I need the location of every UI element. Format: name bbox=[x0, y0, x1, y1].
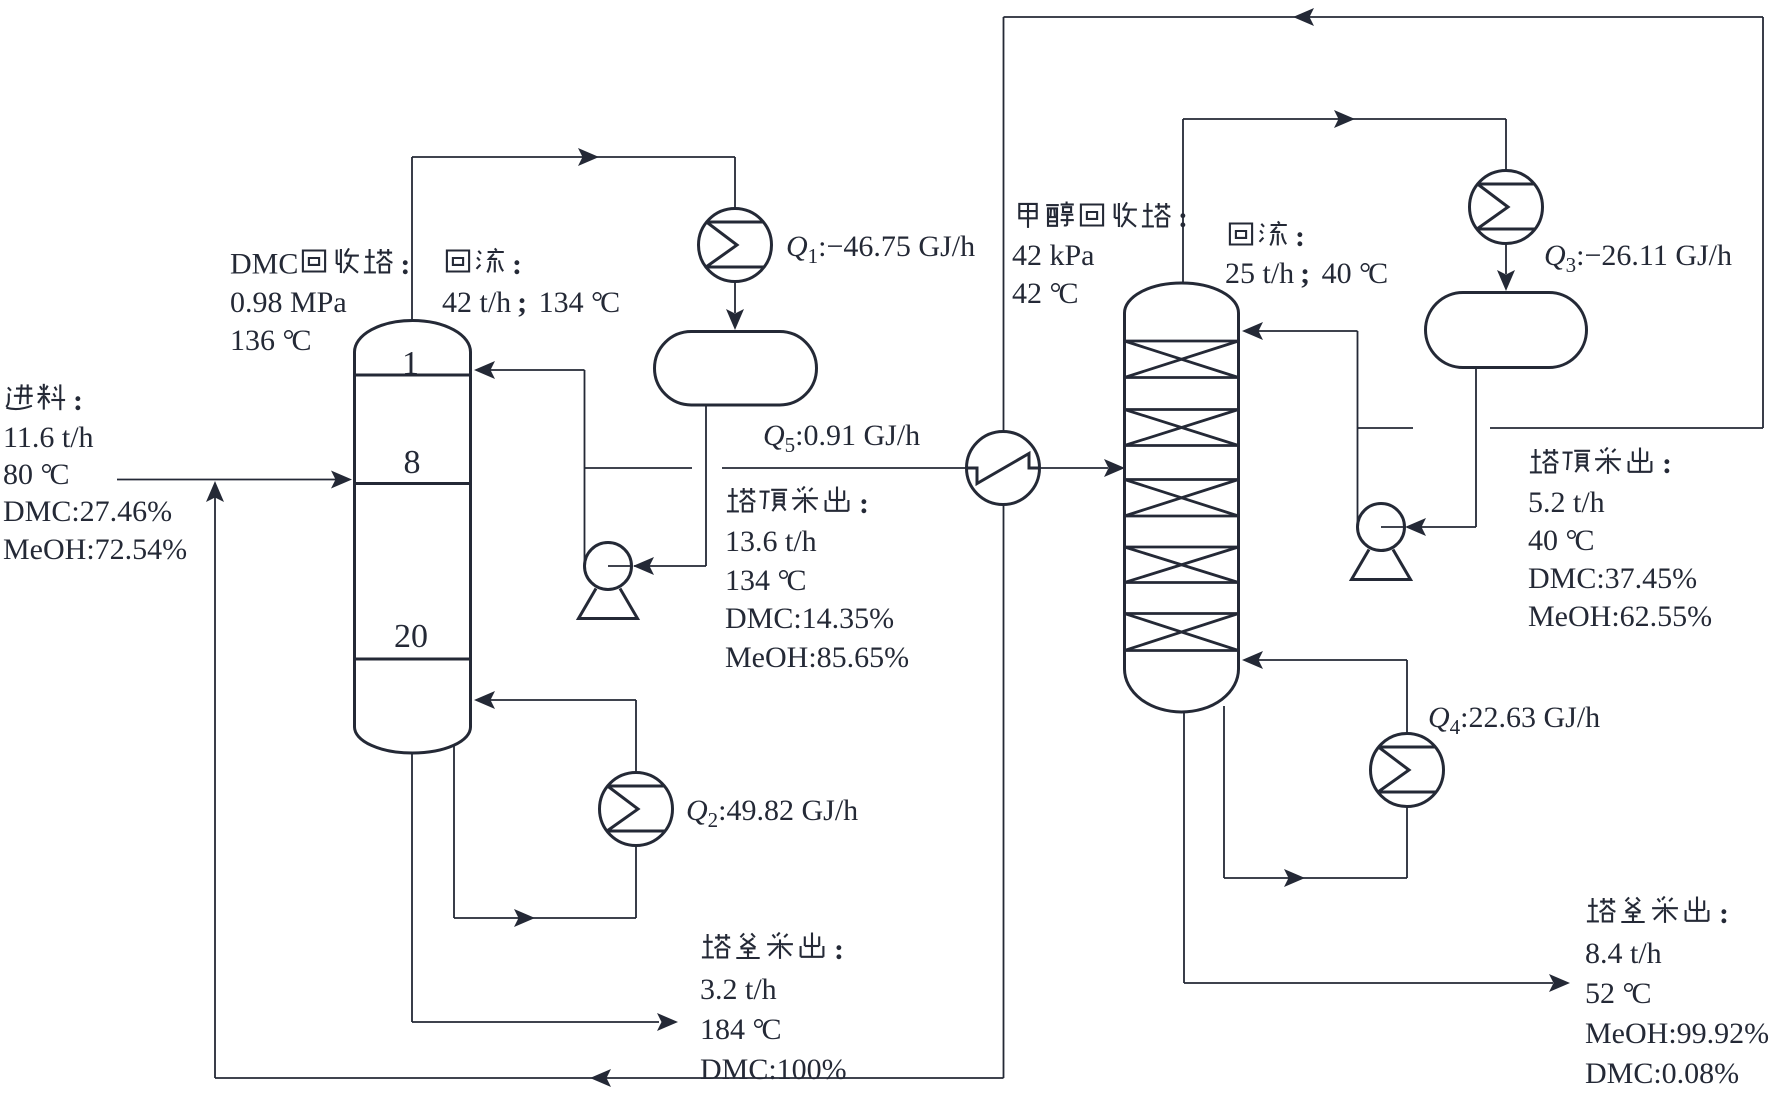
reboiler Q4 bbox=[1371, 734, 1444, 807]
wire: exchanger Q5 to column 2 feed bbox=[1040, 467, 1109, 469]
wire: reflux to column 2 top bbox=[1246, 331, 1358, 527]
label: column 1 reflux bbox=[442, 245, 620, 322]
arrow: into reflux drum 1 bbox=[726, 309, 744, 330]
packing section 5 (right column) bbox=[1125, 614, 1239, 651]
vessel: methanol recovery column body bbox=[1125, 283, 1239, 712]
tray line 8 (left column) bbox=[355, 482, 471, 485]
wire: Q3 outlet bbox=[1505, 244, 1507, 275]
label: Q2 duty bbox=[686, 792, 858, 830]
arrow: bottoms product MeOH bbox=[1549, 974, 1570, 992]
label: DMC column conditions bbox=[230, 245, 414, 360]
wire: Q1 outlet bbox=[734, 282, 736, 314]
wire: distillate line to exchanger Q5 bbox=[722, 467, 967, 469]
tray line 20 (left column) bbox=[355, 658, 471, 661]
packing section 1 (right column) bbox=[1125, 341, 1239, 378]
wire: drum 1 to pump 1 bbox=[634, 406, 706, 566]
packing section 3 (right column) bbox=[1125, 480, 1239, 517]
wire: recycle loop left vertical lower bbox=[1003, 505, 1005, 1079]
arrow: recycle flow top bbox=[1293, 8, 1314, 26]
label: Q1 duty bbox=[786, 228, 975, 266]
arrow: recycle flow bottom bbox=[590, 1069, 611, 1087]
pump P2 bbox=[1352, 504, 1411, 580]
arrow: reboiler return into column 2 bbox=[1242, 651, 1263, 669]
wire: recycle loop right vertical bbox=[1762, 17, 1764, 428]
label: methanol column conditions bbox=[1012, 199, 1192, 314]
wire: drop into condenser Q1 bbox=[734, 157, 736, 208]
vessel: DMC recovery column body bbox=[355, 321, 471, 754]
wire: column 2 bottoms to reboiler Q4 bbox=[1224, 706, 1407, 878]
pump P1 bbox=[579, 543, 638, 619]
wire: column 1 overhead riser bbox=[411, 157, 413, 321]
tray line 1 (left column) bbox=[355, 374, 471, 377]
label: Q5 duty bbox=[763, 417, 920, 455]
label: column 1 overhead product bbox=[725, 484, 909, 677]
wire: reboiler Q2 return bbox=[478, 700, 636, 773]
wire: distillate line (left of crossing) bbox=[585, 467, 693, 469]
arrow: into reflux drum 2 bbox=[1497, 270, 1515, 291]
wire: column 1 bottoms product bbox=[412, 753, 659, 1022]
wire: recycle loop left vertical upper bbox=[1003, 17, 1005, 432]
wire: column 1 overhead horizontal bbox=[412, 156, 735, 158]
arrow: reflux into column 1 bbox=[474, 361, 495, 379]
wire: fresh feed line bbox=[117, 479, 347, 481]
arrow: flow to reboiler Q2 bbox=[514, 909, 535, 927]
wire: recycle loop top bbox=[1004, 16, 1764, 18]
cross exchanger Q5 bbox=[967, 432, 1040, 505]
label: Q4 duty bbox=[1428, 699, 1600, 737]
condenser Q3 bbox=[1470, 171, 1543, 244]
packing section 4 (right column) bbox=[1125, 547, 1239, 583]
arrow: flow to reboiler Q4 bbox=[1284, 869, 1305, 887]
arrow: recycle joins feed bbox=[206, 481, 224, 502]
arrow: reflux into column 2 bbox=[1242, 322, 1263, 340]
label: tray 8 bbox=[372, 445, 452, 481]
arrow: column 2 overhead vapor bbox=[1334, 110, 1355, 128]
wire: column 2 overhead bbox=[1183, 119, 1506, 283]
wire: recycle loop bottom bbox=[215, 1077, 1004, 1079]
wire: reflux to column 1 top bbox=[478, 370, 585, 566]
wire: drop into condenser Q3 bbox=[1505, 119, 1507, 171]
wire: column 2 distillate (left segment) bbox=[1358, 427, 1414, 429]
arrow: feed into column 2 bbox=[1104, 459, 1125, 477]
wire: reboiler Q4 return bbox=[1246, 660, 1407, 734]
arrow: into pump 2 bbox=[1405, 518, 1426, 536]
arrow: into pump 1 bbox=[633, 557, 654, 575]
label: tray 1 bbox=[371, 346, 451, 382]
arrow: feed into column 1 tray 8 bbox=[331, 471, 352, 489]
reflux drum 2 bbox=[1426, 293, 1587, 368]
label: tray 20 bbox=[371, 619, 451, 655]
wire: recycle riser to feed junction bbox=[214, 489, 216, 1078]
reboiler Q2 bbox=[600, 773, 673, 846]
packing section 2 (right column) bbox=[1125, 410, 1239, 446]
label: column 1 bottoms product bbox=[700, 930, 848, 1090]
label: Q3 duty bbox=[1544, 237, 1732, 275]
wire: column 2 distillate (right segment) bbox=[1490, 427, 1763, 429]
label: feed stream data bbox=[3, 381, 187, 568]
arrow: overhead vapor flow bbox=[578, 148, 599, 166]
condenser Q1 bbox=[699, 209, 772, 282]
arrow: reboiler return into column 1 bbox=[474, 691, 495, 709]
label: column 2 bottoms product bbox=[1585, 894, 1769, 1094]
wire: column 2 bottoms product bbox=[1184, 712, 1553, 983]
arrow: bottoms product DMC bbox=[657, 1013, 678, 1031]
label: column 2 overhead product bbox=[1528, 445, 1712, 637]
wire: column 1 bottoms to reboiler Q2 bbox=[454, 746, 636, 918]
label: column 2 reflux bbox=[1225, 218, 1388, 293]
reflux drum 1 bbox=[655, 332, 817, 406]
wire: drum 2 to pump 2 bbox=[1407, 369, 1476, 527]
